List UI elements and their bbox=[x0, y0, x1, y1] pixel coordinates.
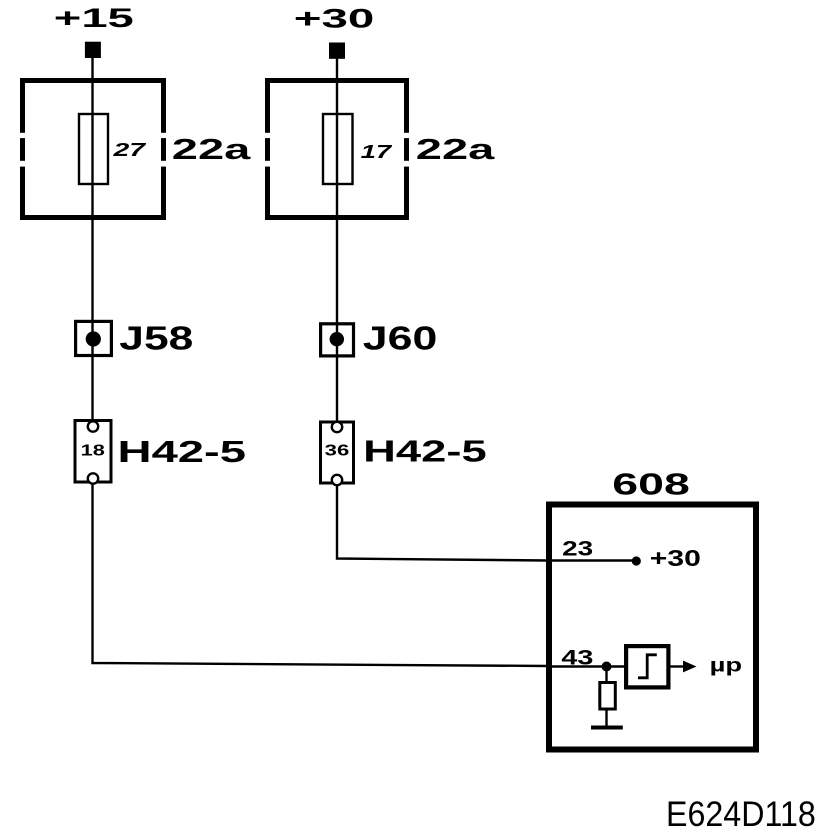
threshold (schmitt) block bbox=[626, 646, 668, 687]
wire H42-5 pin 36 down and right to pin 23 of 608 bbox=[337, 484, 548, 561]
wire pin 23 to +30 node bbox=[546, 559, 633, 561]
svg-text:27: 27 bbox=[112, 140, 147, 160]
wire J58 to H42-5 pin 18 bbox=[91, 357, 93, 421]
wire from +30 terminal through fuse box to J60 bbox=[336, 57, 338, 321]
fuse 17 bbox=[323, 114, 353, 184]
resistor bbox=[600, 683, 616, 710]
connector J58 bbox=[76, 321, 112, 357]
svg-text:23: 23 bbox=[562, 537, 593, 561]
svg-text:+30: +30 bbox=[294, 4, 375, 34]
svg-text:J60: J60 bbox=[363, 320, 438, 357]
wire H42-5 pin 18 down and right to pin 43 of 608 bbox=[93, 483, 549, 666]
svg-text:22a: 22a bbox=[172, 134, 252, 166]
connector H42-5 pin 36 bbox=[321, 422, 354, 485]
ECU box 608 bbox=[549, 505, 756, 750]
wire junction to resistor bbox=[605, 667, 607, 684]
svg-text:+30: +30 bbox=[650, 545, 701, 571]
svg-text:H42-5: H42-5 bbox=[363, 434, 487, 469]
ground bbox=[591, 726, 623, 730]
svg-text:E624D118: E624D118 bbox=[666, 794, 816, 834]
fuse holder box 22a (right, dashed border) bbox=[264, 81, 411, 218]
connector H42-5 pin 18 bbox=[75, 421, 111, 484]
junction dot pin 43 bbox=[602, 662, 612, 672]
svg-text:17: 17 bbox=[361, 142, 393, 162]
svg-text:+15: +15 bbox=[54, 3, 134, 33]
svg-text:18: 18 bbox=[81, 443, 105, 460]
wire pin 43 to threshold block bbox=[546, 665, 626, 667]
terminal square +15 bbox=[85, 42, 101, 58]
svg-text:36: 36 bbox=[325, 443, 350, 460]
svg-text:H42-5: H42-5 bbox=[118, 434, 247, 469]
arrowhead to microprocessor bbox=[683, 661, 697, 673]
svg-text:22a: 22a bbox=[416, 134, 496, 166]
wire J60 to H42-5 pin 36 bbox=[336, 357, 338, 422]
svg-text:608: 608 bbox=[612, 468, 690, 502]
svg-text:µp: µp bbox=[710, 656, 743, 677]
fuse 27 bbox=[79, 114, 108, 184]
wire resistor to ground bbox=[605, 711, 607, 728]
svg-text:J58: J58 bbox=[119, 320, 193, 357]
connector J60 bbox=[321, 321, 354, 357]
terminal square +30 bbox=[329, 43, 345, 59]
wire block to arrow bbox=[670, 665, 683, 667]
wire from +15 terminal through fuse box to J58 bbox=[91, 57, 93, 321]
fuse holder box 22a (left, dashed border) bbox=[19, 81, 167, 218]
node dot +30 internal bbox=[632, 556, 641, 565]
